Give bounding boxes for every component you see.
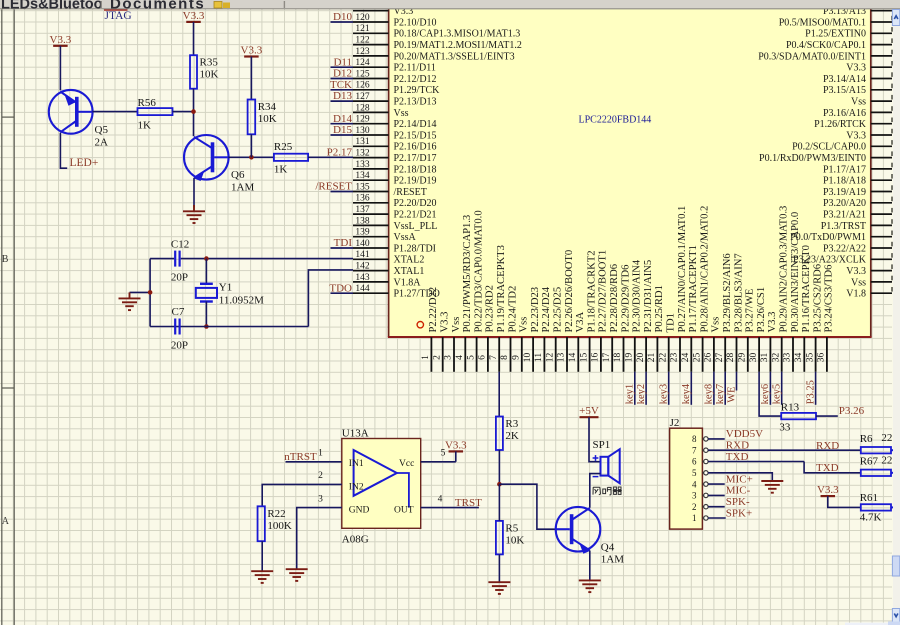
IC U1 right pin row V1.8 (871, 292, 892, 294)
zone divider tick lower (2, 387, 14, 389)
svg-text:P0.5/MISO0/MAT0.1: P0.5/MISO0/MAT0.1 (779, 17, 866, 28)
svg-text:XTAL2: XTAL2 (394, 255, 425, 266)
IC U1 bottom pin 13 P2.26/D26/BOOT0 (566, 337, 568, 372)
ground left of crystal (129, 292, 131, 298)
svg-text:122: 122 (355, 36, 370, 46)
svg-text:VDD5V: VDD5V (726, 428, 763, 440)
svg-text:P1.17/TRACEPKT1: P1.17/TRACEPKT1 (688, 245, 699, 332)
svg-text:138: 138 (355, 216, 370, 226)
svg-text:2A: 2A (95, 136, 109, 148)
svg-text:C12: C12 (171, 238, 189, 250)
IC U1 left pin 126 P1.29/TCK (353, 89, 389, 91)
svg-text:P3.16/A16: P3.16/A16 (823, 108, 866, 119)
svg-text:P1.18/A18: P1.18/A18 (823, 176, 866, 187)
svg-text:34: 34 (794, 353, 804, 363)
IC U1 right pin row P3.21/A21 (871, 213, 892, 215)
wire R5 to ground (498, 554, 500, 582)
svg-text:129: 129 (355, 115, 370, 125)
svg-text:144: 144 (355, 284, 370, 294)
svg-text:11.0952M: 11.0952M (219, 294, 264, 306)
wire nTRST to pin1 (286, 461, 342, 463)
svg-text:V3A: V3A (575, 312, 586, 333)
svg-text:/RESET: /RESET (315, 181, 352, 193)
svg-text:135: 135 (355, 182, 370, 192)
svg-text:123: 123 (355, 47, 370, 57)
svg-text:124: 124 (355, 58, 370, 68)
svg-text:126: 126 (355, 81, 370, 91)
IC U1 right pin row V3.3 (871, 270, 892, 272)
svg-text:TDI: TDI (334, 237, 353, 249)
svg-text:Vss: Vss (394, 108, 409, 119)
IC U1 left pin 140 P1.28/TDI (353, 247, 389, 249)
svg-text:P2.29/D29/TD6: P2.29/D29/TD6 (620, 265, 631, 333)
zone divider tick upper (2, 116, 14, 118)
op-amp output trace (397, 473, 409, 508)
IC U1 bottom pin 3 Vss (453, 337, 455, 372)
IC U1 right pin row P3.20/A20 (871, 202, 892, 204)
svg-text:120: 120 (355, 13, 370, 23)
IC U1 right pin row P1.17/A17 (871, 168, 892, 170)
IC U1 right pin row P0.1/RxD0/PWM3/EINT0 (871, 157, 892, 159)
wire and net label D11 at pin 124 (331, 66, 354, 68)
svg-text:U13A: U13A (342, 427, 369, 439)
svg-text:P3.25/CS2/RD6: P3.25/CS2/RD6 (812, 264, 823, 333)
svg-text:121: 121 (355, 24, 370, 34)
svg-text:35: 35 (805, 353, 815, 363)
svg-text:P0.3/SDA/MAT0.0/EINT1: P0.3/SDA/MAT0.0/EINT1 (758, 51, 866, 62)
svg-text:R34: R34 (258, 101, 277, 113)
connector J2 body (670, 428, 703, 529)
IC U1 left pin 121 P0.18/CAP1.3.MISO1/MAT1.3 (353, 32, 389, 34)
wire and net label key2 at bottom pin 20 (645, 372, 647, 405)
svg-text:TRST: TRST (455, 497, 482, 509)
wire and net label D15 at pin 130 (331, 134, 354, 136)
svg-text:Q5: Q5 (95, 124, 109, 136)
svg-text:142: 142 (355, 262, 370, 272)
svg-text:P3.25: P3.25 (805, 380, 816, 404)
IC U1 bottom pin 11 P2.24/D24 (543, 337, 545, 372)
wire pin2 to R22 (262, 484, 342, 506)
wire R61 to edge (891, 506, 900, 508)
svg-text:key6: key6 (760, 384, 771, 404)
IC U1 bottom pin 4 P0.21/PWM5/RD3/CAP1.3 (464, 337, 466, 372)
svg-text:P1.3/TRST: P1.3/TRST (821, 221, 866, 232)
svg-text:R6: R6 (860, 433, 873, 445)
transistor Q6 (184, 135, 229, 180)
IC U1 right pin row P0.5/MISO0/MAT0.1 (871, 21, 892, 23)
wire Q5 base to R56 (92, 111, 137, 113)
svg-text:P2.23/D23: P2.23/D23 (530, 287, 541, 333)
svg-text:30: 30 (749, 353, 759, 363)
junction node R56/R35 (191, 109, 196, 114)
svg-text:C7: C7 (172, 306, 185, 318)
svg-text:P2.16/D16: P2.16/D16 (394, 142, 437, 153)
IC U1 left pin 124 P2.11/D11 (353, 66, 389, 68)
svg-text:P2.18/D18: P2.18/D18 (394, 164, 437, 175)
IC U1 right pin row P3.23/A23/XCLK (871, 258, 892, 260)
svg-text:10K: 10K (258, 113, 277, 125)
wire V3.3 to Q5 emitter (59, 46, 61, 91)
transistor Q4 (556, 507, 601, 552)
svg-text:18: 18 (613, 353, 623, 363)
scrollbar track (893, 9, 900, 625)
svg-text:TXD: TXD (816, 462, 839, 474)
IC U1 bottom pin 28 P3.28/BLS3/AIN7 (736, 337, 738, 372)
svg-text:P1.26/RTCK: P1.26/RTCK (814, 119, 867, 130)
IC U1 left pin 122 P0.19/MAT1.2.MOSI1/MAT1.2 (353, 44, 389, 46)
toolbar separator 2 (283, 1, 285, 8)
svg-text:P0.19/MAT1.2.MOSI1/MAT1.2: P0.19/MAT1.2.MOSI1/MAT1.2 (394, 40, 522, 51)
IC U1 left pin 130 P2.15/D15 (353, 134, 389, 136)
wire and net label key7 at bottom pin 27 (724, 372, 726, 405)
svg-text:B: B (2, 254, 9, 265)
svg-text:D15: D15 (333, 124, 352, 136)
wire and net label TDI at pin 140 (331, 247, 354, 249)
svg-text:WE: WE (726, 386, 737, 402)
svg-text:P3.21/A21: P3.21/A21 (823, 210, 866, 221)
svg-text:2: 2 (432, 355, 442, 360)
svg-text:125: 125 (355, 69, 370, 79)
IC U1 left pin 143 V1.8A (353, 281, 389, 283)
svg-text:P1.25/EXTIN0: P1.25/EXTIN0 (805, 29, 866, 40)
svg-text:4: 4 (438, 494, 443, 504)
svg-text:key4: key4 (681, 383, 692, 404)
svg-text:1AM: 1AM (231, 182, 254, 194)
svg-text:P2.21/D21: P2.21/D21 (394, 210, 437, 221)
svg-text:3: 3 (444, 355, 454, 360)
svg-text:19: 19 (625, 353, 635, 363)
svg-text:Vcc: Vcc (399, 459, 414, 469)
svg-text:R35: R35 (200, 57, 219, 69)
svg-text:LEDs&Bluetoo: LEDs&Bluetoo (1, 0, 103, 12)
svg-text:IN2: IN2 (349, 482, 364, 492)
svg-text:33: 33 (783, 353, 793, 363)
wire V3.3 to R35 (193, 22, 195, 55)
IC U1 right border (870, 9, 872, 337)
resistor R35 (190, 55, 197, 88)
svg-text:P3.26: P3.26 (839, 405, 865, 417)
svg-text:RXD: RXD (816, 440, 839, 452)
svg-text:16: 16 (591, 353, 601, 363)
wire and net label VDD5V at J2 pin 8 (708, 438, 725, 440)
op IC body U1 fill (389, 9, 871, 337)
svg-text:D13: D13 (333, 90, 352, 102)
ground below R5 (488, 581, 510, 583)
resistor R67 (861, 470, 891, 476)
svg-text:P2.31/D31/AIN5: P2.31/D31/AIN5 (643, 260, 654, 333)
svg-text:128: 128 (355, 103, 370, 113)
svg-text:key2: key2 (636, 384, 647, 404)
IC U1 right pin row P3.16/A16 (871, 111, 892, 113)
power port V3.3 at R61 (821, 495, 836, 497)
IC U1 left pin 144 P1.27/TDO (353, 292, 389, 294)
wire R25 to pin132 (308, 156, 353, 158)
JTAG red wire segment (104, 9, 128, 11)
svg-text:139: 139 (355, 228, 370, 238)
wire Q4 emitter to ground (589, 551, 591, 581)
svg-text:R61: R61 (860, 492, 878, 504)
svg-text:D12: D12 (333, 68, 352, 80)
svg-text:8: 8 (692, 434, 697, 444)
wire and net label D14 at pin 129 (331, 123, 354, 125)
IC U1 bottom pin 33 P0.30/AIN3/EINT3/CAP0.0 (792, 337, 794, 372)
wire and net label key5 at bottom pin 32 (781, 372, 783, 405)
wire V3.3 to R34 (250, 57, 252, 100)
svg-text:R25: R25 (274, 141, 293, 153)
IC U1 left pin 125 P2.12/D12 (353, 78, 389, 80)
svg-text:P2.24/D24: P2.24/D24 (541, 286, 552, 332)
wire R3 to node (498, 450, 500, 484)
svg-text:P1.18/TRACRKT2: P1.18/TRACRKT2 (586, 250, 597, 332)
bottom scrollbar sliver (845, 623, 900, 625)
IC U1 left pin 128 Vss (353, 111, 389, 113)
IC U1 left pin 135 /RESET (353, 191, 389, 193)
resistor R22 (258, 506, 265, 541)
toolbar icon (214, 2, 222, 9)
IC U1 bottom pin 10 P2.23/D23 (532, 337, 534, 372)
svg-text:GND: GND (349, 506, 370, 516)
svg-text:P0.20/MAT1.3/SSEL1/EINT3: P0.20/MAT1.3/SSEL1/EINT3 (394, 51, 515, 62)
IC U1 bottom pin 9 Vss (521, 337, 523, 372)
svg-text:MIC+: MIC+ (726, 473, 753, 485)
wire and net label TXD at J2 pin 6 (708, 461, 804, 463)
junction C12 right (204, 256, 209, 261)
svg-text:TXD: TXD (726, 451, 749, 463)
resistor R56 (138, 108, 173, 115)
svg-text:6: 6 (692, 457, 697, 467)
svg-text:V3.3: V3.3 (817, 484, 839, 496)
svg-text:1: 1 (692, 513, 697, 523)
wire R6 to edge (891, 449, 900, 451)
svg-text:P3.19/A19: P3.19/A19 (823, 187, 866, 198)
svg-text:8: 8 (500, 355, 510, 360)
IC U1 left pin 127 P2.13/D13 (353, 100, 389, 102)
svg-text:XTAL1: XTAL1 (394, 266, 425, 277)
IC U1 right pin row Vss (871, 281, 892, 283)
junction node Q6 base (249, 155, 254, 160)
svg-text:133: 133 (355, 160, 370, 170)
resistor R3 (496, 417, 503, 451)
svg-text:Vss: Vss (519, 317, 530, 333)
ground below pin3 (286, 568, 308, 570)
wire TXD step down (804, 462, 861, 473)
svg-text:P2.13/D13: P2.13/D13 (394, 97, 437, 108)
svg-text:P2.19/D19: P2.19/D19 (394, 176, 437, 187)
svg-text:36: 36 (817, 353, 827, 363)
svg-text:27: 27 (715, 353, 725, 363)
svg-text:137: 137 (355, 205, 370, 215)
wire V3.3 stem U13A (455, 451, 457, 461)
wire and net label D13 at pin 127 (331, 100, 354, 102)
IC U1 bottom pin 32 P0.29/AIN2/CAP0.3/MAT0.3 (781, 337, 783, 372)
IC U1 bottom pin 29 P3.27/WE (747, 337, 749, 372)
wire +5V to SP1 plus (589, 417, 601, 462)
IC U1 bottom border (388, 336, 872, 338)
IC U1 right pin row V3.3 (871, 66, 892, 68)
svg-text:2: 2 (692, 502, 697, 512)
svg-text:R67: R67 (860, 455, 879, 467)
ground at J2 pin5 (761, 480, 783, 482)
svg-text:P0.1/RxD0/PWM3/EINT0: P0.1/RxD0/PWM3/EINT0 (759, 153, 866, 164)
svg-text:P2.28/D28/RD6: P2.28/D28/RD6 (609, 264, 620, 333)
svg-text:24: 24 (681, 353, 691, 363)
svg-text:Documents: Documents (110, 0, 205, 12)
IC U1 left pin 141 XTAL2 (353, 258, 389, 260)
svg-text:key8: key8 (704, 384, 715, 404)
svg-text:RXD: RXD (726, 440, 749, 452)
wire Q6 emitter to ground (193, 178, 195, 208)
IC U1 bottom pin 31 V3.3 (769, 337, 771, 372)
svg-text:V1.8A: V1.8A (394, 277, 422, 288)
IC U1 left pin 136 P2.20/D20 (353, 202, 389, 204)
svg-text:3: 3 (692, 491, 697, 501)
IC U1 left pin 123 P0.20/MAT1.3/SSEL1/EINT3 (353, 55, 389, 57)
svg-text:LPC2220FBD144: LPC2220FBD144 (579, 115, 652, 126)
wire R35 to Q6 collector (193, 89, 195, 137)
wire node to Q4 base (499, 484, 555, 529)
wire left rail top (150, 258, 174, 260)
svg-text:OUT: OUT (394, 506, 414, 516)
IC U1 right pin row P3.15/A15 (871, 89, 892, 91)
svg-text:P1.28/TDI: P1.28/TDI (394, 243, 437, 254)
svg-text:2: 2 (318, 471, 323, 481)
svg-text:Vss: Vss (851, 97, 866, 108)
ground below Q4 (579, 579, 601, 581)
svg-text:V1.8: V1.8 (846, 289, 866, 300)
wire and net label SPK+ at J2 pin 1 (708, 517, 726, 519)
svg-text:P0.22/TD3/CAP0.0/MAT0.0: P0.22/TD3/CAP0.0/MAT0.0 (473, 210, 484, 332)
svg-text:20P: 20P (171, 272, 188, 284)
svg-text:V3.3: V3.3 (767, 312, 778, 333)
svg-text:P3.15/A15: P3.15/A15 (823, 85, 866, 96)
op-amp U13A body (342, 439, 421, 529)
wire Q5 collector to LED+ (60, 133, 67, 168)
IC U1 left pin 138 VssL_PLL (353, 224, 389, 226)
svg-text:26: 26 (704, 353, 714, 363)
svg-text:D10: D10 (333, 11, 352, 23)
svg-text:12: 12 (545, 353, 555, 363)
svg-text:5: 5 (466, 355, 476, 360)
wire R13 to net (816, 415, 838, 417)
wire and net label SPK- at J2 pin 2 (708, 506, 725, 508)
svg-text:D14: D14 (333, 113, 352, 125)
IC U1 bottom pin 12 P2.25/D25 (555, 337, 557, 372)
resistor R25 (274, 154, 308, 161)
IC U1 bottom pin 20 P2.31/D31/AIN5 (645, 337, 647, 372)
svg-text:+5V: +5V (579, 405, 599, 417)
wire SP1 minus to Q4 collector (590, 474, 601, 508)
svg-text:Y1: Y1 (219, 281, 232, 293)
wire and net label /RESET at pin 135 (331, 191, 354, 193)
svg-text:1: 1 (318, 449, 323, 459)
svg-text:R3: R3 (505, 418, 518, 430)
svg-text:P0.2/SCL/CAP0.0: P0.2/SCL/CAP0.0 (792, 142, 866, 153)
IC U1 left pin 133 P2.18/D18 (353, 168, 389, 170)
IC U1 bottom pin 6 P0.23/RD2 (487, 337, 489, 372)
svg-text:Q6: Q6 (231, 169, 245, 181)
svg-text:22: 22 (658, 353, 668, 363)
svg-text:P2.10/D10: P2.10/D10 (394, 17, 437, 28)
IC U1 bottom pin 27 P3.29/BLS2/AIN6 (724, 337, 726, 372)
svg-text:15: 15 (579, 353, 589, 363)
svg-text:11: 11 (534, 353, 544, 362)
svg-text:P2.26/D26/BOOT0: P2.26/D26/BOOT0 (564, 250, 575, 333)
power port V3.3 above Q5 (53, 45, 68, 47)
svg-text:136: 136 (355, 194, 370, 204)
junction node R3/R5 (497, 482, 502, 487)
svg-text:V3.3: V3.3 (241, 45, 263, 57)
power port V3.3 above R34 (244, 55, 259, 57)
wire crystal ground stub (130, 291, 151, 293)
IC U1 right pin row P1.26/RTCK (871, 123, 892, 125)
svg-text:V3.3: V3.3 (445, 439, 467, 451)
IC U1 bottom pin 24 P1.17/TRACEPKT1 (690, 337, 692, 372)
svg-text:Vss: Vss (851, 277, 866, 288)
svg-text:key1: key1 (625, 384, 636, 404)
svg-text:P2.22/D22: P2.22/D22 (428, 287, 439, 333)
junction C7 right (204, 324, 209, 329)
ground below R22 (251, 570, 273, 572)
IC U1 left pin 139 VssA (353, 236, 389, 238)
IC U1 left pin 142 XTAL1 (353, 270, 389, 272)
IC U1 left pin 131 P2.16/D16 (353, 145, 389, 147)
svg-text:V3.3: V3.3 (440, 312, 451, 333)
svg-text:132: 132 (355, 149, 370, 159)
svg-text:SPK-: SPK- (726, 496, 750, 508)
wire V3.3 to R61 (828, 496, 861, 507)
svg-text:P0.0/TxD0/PWM1: P0.0/TxD0/PWM1 (790, 232, 866, 243)
svg-text:P3.24/CS3/TD6: P3.24/CS3/TD6 (824, 265, 835, 333)
resistor R34 (248, 100, 256, 135)
svg-text:9: 9 (512, 355, 522, 360)
svg-text:127: 127 (355, 92, 370, 102)
wire R22 to ground (261, 541, 263, 571)
svg-text:P3.26/CS1: P3.26/CS1 (756, 287, 767, 333)
svg-text:P0.30/AIN3/EINT3/CAP0.0: P0.30/AIN3/EINT3/CAP0.0 (790, 212, 801, 333)
svg-text:4.7K: 4.7K (860, 512, 882, 524)
svg-text:P0.23/RD2: P0.23/RD2 (485, 285, 496, 332)
svg-text:P3.29/BLS2/AIN6: P3.29/BLS2/AIN6 (722, 253, 733, 332)
svg-text:Vss: Vss (711, 317, 722, 333)
svg-text:A08G: A08G (342, 534, 369, 546)
svg-text:P0.21/PWM5/RD3/CAP1.3: P0.21/PWM5/RD3/CAP1.3 (462, 215, 473, 333)
wire node to R5 (498, 484, 500, 521)
svg-text:V3.3: V3.3 (846, 130, 866, 141)
resistor R6 (861, 447, 891, 453)
svg-text:10: 10 (523, 353, 533, 363)
svg-text:P2.27/D27/BOOT1: P2.27/D27/BOOT1 (598, 250, 609, 333)
svg-text:P0.25/RD1: P0.25/RD1 (654, 285, 665, 332)
svg-text:P3.27/WE: P3.27/WE (745, 289, 756, 333)
svg-text:P0.18/CAP1.3.MISO1/MAT1.3: P0.18/CAP1.3.MISO1/MAT1.3 (394, 29, 521, 40)
wire bottom rail (150, 326, 308, 328)
wire and net label key4 at bottom pin 24 (690, 372, 692, 405)
wire Y1 top (205, 259, 207, 284)
IC U1 bottom pin 25 P0.28/AIN1/CAP0.2/MAT0.2 (702, 337, 704, 372)
IC U1 right pin row P1.3/TRST (871, 224, 892, 226)
speaker SP1 chinese label (593, 487, 600, 494)
wire and net label P3.25 at bottom pin 35 (815, 372, 817, 405)
IC U1 right pin row P3.14/A14 (871, 78, 892, 80)
wire and net label key8 at bottom pin 26 (713, 372, 715, 405)
svg-text:140: 140 (355, 239, 370, 249)
wire pin7 to R3 (498, 372, 500, 417)
svg-text:P0.24/TD2: P0.24/TD2 (507, 286, 518, 333)
svg-text:20: 20 (636, 353, 646, 363)
wire and net label D10 at pin 120 (331, 21, 354, 23)
svg-text:143: 143 (355, 273, 370, 283)
svg-text:33: 33 (779, 421, 791, 433)
